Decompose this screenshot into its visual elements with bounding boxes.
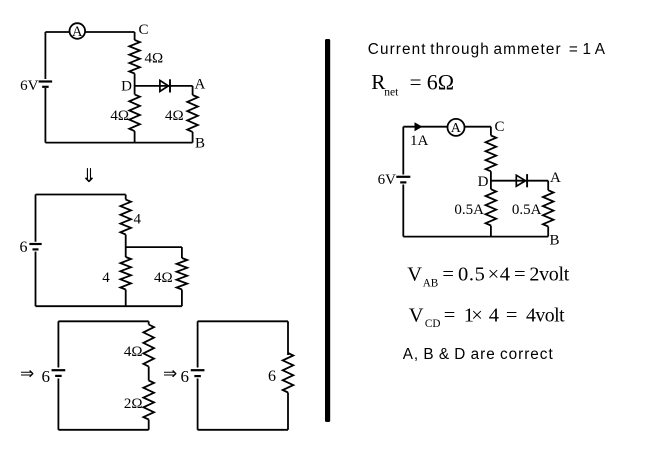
wire circuit4 bottom [198, 393, 288, 430]
label 6 circuit4 battery [181, 367, 190, 386]
label B circuit1 [195, 136, 205, 152]
label 4ohm D-bottom [110, 108, 129, 124]
wire D to diode to A right-circuit [491, 180, 548, 182]
svg-text:6V: 6V [378, 172, 397, 188]
battery 6 circuit3 [52, 370, 66, 376]
vertical divider bar [325, 39, 330, 422]
ammeter A circuit1 [70, 23, 86, 40]
label B right-circuit [550, 233, 560, 249]
label 6V right-circuit [378, 172, 397, 188]
resistor 4ohm C-D [129, 40, 140, 74]
wire circuit3 left vertical [57, 321, 59, 430]
label 6V circuit1 [20, 78, 39, 94]
label 2ohm circuit3 [124, 396, 143, 412]
text: A, B & D are correct [403, 346, 554, 363]
resistor 4 lower-left circuit2 [120, 257, 131, 290]
battery 6V right-circuit [396, 177, 410, 183]
wire: circuit1 top left-to-C [45, 31, 134, 33]
label 0.5A left right-circuit [454, 202, 484, 218]
label 4ohm right circuit2 [154, 270, 173, 286]
equation V_CD = 1 x 4 = 4 volt [409, 304, 565, 330]
label D right-circuit [478, 174, 489, 190]
svg-text:Current through ammeter = 1 A: Current through ammeter = 1 A [368, 41, 606, 58]
svg-text:C: C [495, 119, 505, 135]
svg-text:2Ω: 2Ω [124, 396, 143, 412]
wire A down right-circuit [547, 181, 549, 191]
svg-text:C: C [139, 22, 149, 38]
svg-text:B: B [195, 136, 205, 152]
svg-text:6V: 6V [20, 78, 39, 94]
resistor 2ohm circuit3 [143, 381, 154, 420]
svg-text:A, B & D are correct: A, B & D are correct [403, 346, 554, 363]
label 1A right-circuit [410, 133, 429, 149]
label 4ohm A-B [165, 108, 184, 124]
label 4ohm circuit3 [124, 344, 143, 360]
text: Current through ammeter = 1 A [368, 41, 606, 58]
wire circuit2 left vertical [35, 195, 37, 307]
diode D-A circuit1 [160, 79, 170, 92]
wire circuit2 branch to right [126, 247, 182, 258]
svg-text:A: A [550, 170, 561, 186]
wire circuit3 mid-right [148, 367, 150, 381]
label D circuit1 [121, 79, 132, 95]
resistor 4ohm D-bottom [129, 94, 140, 131]
svg-text:6: 6 [268, 368, 276, 385]
svg-text:⇒: ⇒ [163, 364, 177, 383]
resistor A-B right-circuit [543, 190, 554, 226]
wire circuit3 bottom [58, 420, 148, 430]
svg-text:0.5A: 0.5A [454, 202, 484, 218]
label 6 resistor circuit4 [268, 368, 276, 385]
label 4 lower circuit2 [102, 270, 110, 286]
label A circuit1 [195, 77, 206, 93]
svg-text:A: A [72, 24, 83, 40]
wire resistor to node D [134, 74, 136, 95]
svg-text:4Ω: 4Ω [154, 270, 173, 286]
svg-text:6: 6 [181, 367, 190, 386]
svg-text:D: D [121, 79, 132, 95]
wire: circuit1 left side vertical [44, 32, 46, 143]
label A right-circuit [550, 170, 561, 186]
svg-text:4Ω: 4Ω [145, 51, 164, 67]
wire D to diode to A [135, 85, 193, 87]
wire circuit2 middle node [125, 235, 127, 258]
svg-text:A: A [195, 77, 206, 93]
resistor 4ohm circuit3 [143, 325, 154, 367]
implies arrow circuit3 [20, 364, 34, 383]
label 4 top circuit2 [134, 211, 142, 227]
diode right-circuit [516, 174, 527, 187]
svg-text:1A: 1A [410, 133, 429, 149]
svg-text:B: B [550, 233, 560, 249]
battery 6 circuit4 [191, 370, 205, 376]
label C right-circuit [495, 119, 505, 135]
resistor 6 circuit4 [283, 353, 294, 393]
wire circuit2 bottom [36, 290, 182, 307]
wire A down to resistor [192, 86, 194, 95]
double down-arrow between circuit1 and circuit2 [81, 166, 97, 187]
resistor 4ohm right circuit2 [177, 258, 188, 290]
svg-text:6: 6 [20, 239, 28, 256]
equation R_net = 6 ohm [371, 70, 454, 99]
svg-text:D: D [478, 174, 489, 190]
implies arrow circuit4 [163, 364, 177, 383]
wire right-circuit top [403, 126, 491, 128]
equation V_AB = 0.5 x 4 = 2 volt [407, 263, 569, 289]
current arrow 1A on top wire [415, 122, 423, 131]
battery 6V circuit1 [39, 82, 53, 87]
wire resistors to bottom, circuit1 bottom wire [45, 131, 192, 143]
svg-text:6: 6 [42, 367, 51, 386]
ammeter A right-circuit [448, 119, 465, 136]
resistor 4ohm A-B [187, 95, 198, 132]
label 0.5A right right-circuit [512, 202, 542, 218]
node C wire down + label [135, 22, 149, 40]
svg-text:4Ω: 4Ω [124, 344, 143, 360]
svg-text:4: 4 [134, 211, 142, 227]
label 6 circuit3 battery [42, 367, 51, 386]
svg-text:⇓: ⇓ [81, 166, 97, 187]
label 6 circuit2 [20, 239, 28, 256]
wire resistor to D [490, 171, 492, 189]
wire circuit4 left vertical [197, 321, 199, 430]
label 4ohm C-D [145, 51, 164, 67]
svg-text:A: A [451, 121, 462, 136]
wire circuit3 top [58, 321, 148, 324]
resistor D-B right-circuit [486, 189, 497, 225]
wire circuit2 middle top segment [125, 195, 127, 200]
resistor 4 top circuit2 [120, 200, 131, 235]
svg-text:⇒: ⇒ [20, 364, 34, 383]
svg-text:4Ω: 4Ω [110, 108, 129, 124]
wire right-circuit left vertical [402, 127, 404, 237]
battery 6 circuit2 [29, 244, 41, 249]
wire circuit2 top [36, 194, 126, 196]
svg-text:4: 4 [102, 270, 110, 286]
wire circuit4 top [198, 321, 288, 355]
wire right-circuit bottom [403, 226, 548, 237]
svg-text:0.5A: 0.5A [512, 202, 542, 218]
wire C down [490, 127, 492, 136]
svg-text:4Ω: 4Ω [165, 108, 184, 124]
resistor C-D right-circuit [486, 136, 497, 172]
